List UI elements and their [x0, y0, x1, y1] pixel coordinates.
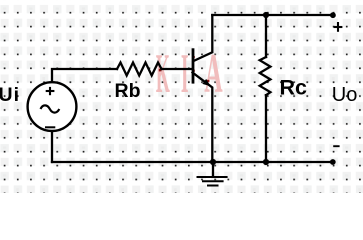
svg-text:Rb: Rb [115, 80, 141, 102]
svg-text:Uo: Uo [332, 84, 358, 106]
svg-text:A: A [204, 43, 223, 105]
svg-text:K: K [156, 42, 170, 104]
svg-text:Ui: Ui [0, 84, 20, 106]
svg-text:I: I [181, 44, 189, 105]
svg-text:Rc: Rc [280, 76, 308, 100]
